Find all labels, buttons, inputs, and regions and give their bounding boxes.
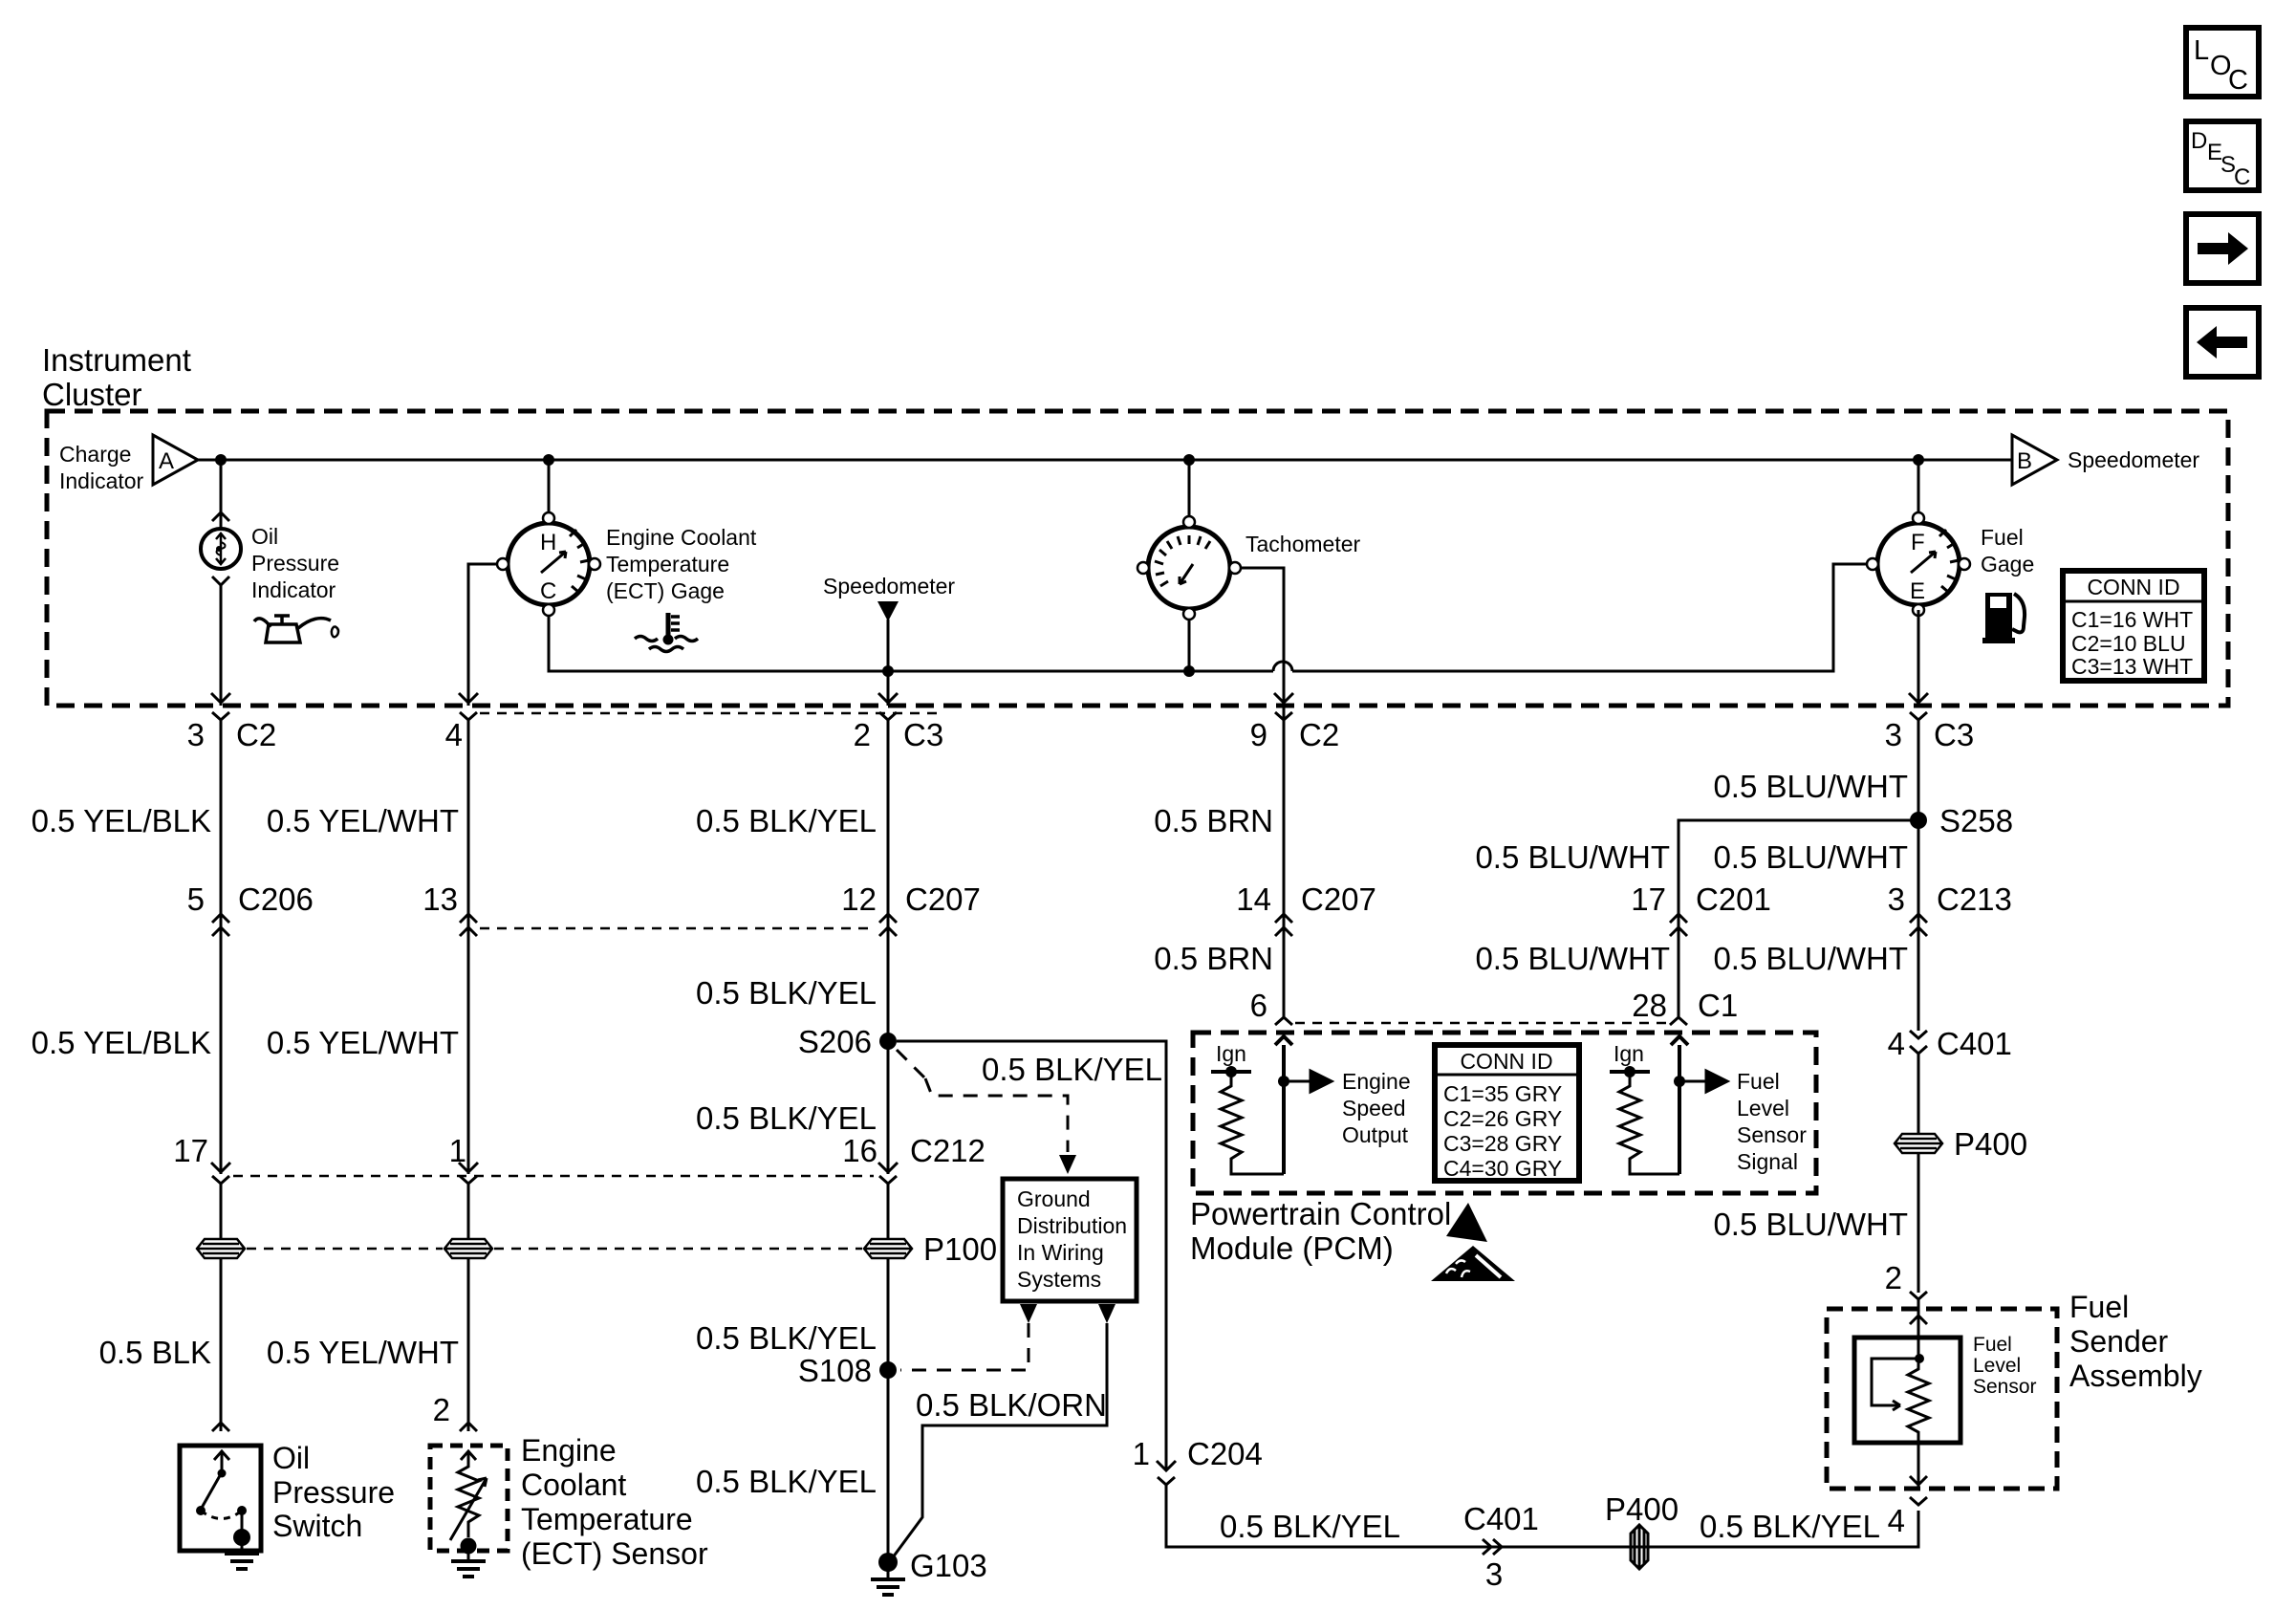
- svg-text:0.5 BLU/WHT: 0.5 BLU/WHT: [1475, 839, 1670, 875]
- svg-text:2: 2: [433, 1392, 450, 1427]
- svg-text:Indicator: Indicator: [59, 468, 144, 493]
- ground at ECT sensor: [451, 1538, 486, 1577]
- svg-text:17: 17: [173, 1133, 208, 1168]
- node: bus junction at oil indicator: [215, 454, 227, 466]
- node: bus junction at tachometer: [1183, 454, 1195, 466]
- P100 pass-through (ECT wire): [444, 1239, 492, 1258]
- arrow into cluster border (ECT): [459, 693, 478, 703]
- svg-text:Speed: Speed: [1342, 1096, 1406, 1120]
- svg-text:Fuel: Fuel: [2069, 1290, 2129, 1324]
- Engine Coolant Temperature (ECT) Gage label: [606, 525, 757, 603]
- oil pressure indicator gauge circle: [201, 529, 241, 569]
- wire: P400 to fuel sender: [1917, 1153, 1920, 1293]
- svg-text:C3=28 GRY: C3=28 GRY: [1443, 1131, 1562, 1156]
- LOC button box: [2186, 28, 2259, 97]
- wire: pin3 down to S258: [1917, 729, 1920, 820]
- svg-text:0.5 BLK/YEL: 0.5 BLK/YEL: [696, 1464, 877, 1499]
- svg-text:Ign: Ign: [1614, 1041, 1644, 1066]
- svg-text:16: 16: [842, 1133, 877, 1168]
- svg-text:F: F: [1911, 530, 1925, 555]
- svg-text:Assembly: Assembly: [2069, 1359, 2202, 1393]
- svg-text:CONN ID: CONN ID: [2087, 575, 2179, 599]
- svg-text:C4=30 GRY: C4=30 GRY: [1443, 1156, 1562, 1181]
- svg-text:Output: Output: [1342, 1122, 1409, 1147]
- arrow into C212 (ECT wire): [459, 1163, 478, 1172]
- wire: main bus A to B: [198, 459, 2012, 462]
- splice S108: [879, 1361, 897, 1379]
- arrow into cluster border (tach): [1274, 693, 1293, 703]
- wire: S108 down to G103: [887, 1370, 890, 1558]
- Fuel Level Sensor Signal label: [1737, 1069, 1807, 1174]
- wire into fuel sender with arrow: [1910, 1299, 1927, 1338]
- chevron below oil indicator: [212, 577, 229, 585]
- svg-text:C3=13 WHT: C3=13 WHT: [2071, 654, 2193, 679]
- ECT gauge circle: [497, 512, 600, 616]
- svg-text:0.5 YEL/WHT: 0.5 YEL/WHT: [267, 803, 459, 838]
- arrow to Engine Speed Output: [1284, 1071, 1332, 1092]
- svg-text:S108: S108: [798, 1353, 872, 1388]
- wire: P100 to ECT sensor: [467, 1258, 470, 1431]
- PCM Ign pullup (fuel level): [1610, 1041, 1679, 1174]
- svg-text:C2=26 GRY: C2=26 GRY: [1443, 1106, 1562, 1131]
- svg-text:12: 12: [841, 881, 877, 917]
- connector C207 pin 14 symbol: [1275, 914, 1292, 936]
- svg-text:C3: C3: [903, 717, 943, 752]
- connector pin 4 (fuel sender bottom): [1910, 1497, 1927, 1505]
- svg-text:Level: Level: [1973, 1355, 2021, 1377]
- svg-text:Fuel: Fuel: [1737, 1069, 1780, 1094]
- connector pin 2 C3 symbol: [879, 712, 897, 736]
- connector pin 9 C2 symbol: [1275, 712, 1292, 720]
- svg-text:P400: P400: [1605, 1491, 1679, 1527]
- Ground Distribution box: [1003, 1179, 1137, 1301]
- svg-text:P100: P100: [923, 1231, 997, 1267]
- svg-text:C401: C401: [1463, 1501, 1539, 1536]
- svg-text:Cluster: Cluster: [42, 377, 142, 412]
- svg-text:Sensor: Sensor: [1737, 1122, 1807, 1147]
- svg-text:Pressure: Pressure: [272, 1475, 395, 1510]
- fuel pump icon: [1982, 593, 2025, 643]
- fuel sender assembly dashed box: [1827, 1309, 2057, 1489]
- Fuel Sender Assembly label: [2069, 1290, 2202, 1393]
- svg-text:2: 2: [1885, 1260, 1902, 1295]
- connector C213 pin 3 symbol: [1910, 914, 1927, 936]
- svg-text:0.5 BRN: 0.5 BRN: [1154, 803, 1273, 838]
- arrow into cluster border (oil): [211, 693, 230, 703]
- P100 face dashed line: [247, 1248, 443, 1251]
- svg-text:4: 4: [1888, 1503, 1905, 1538]
- connector C207 pin 13 symbol: [460, 914, 477, 936]
- svg-text:C: C: [2228, 65, 2248, 96]
- connector C207 pin 12 symbol: [879, 914, 897, 936]
- P100 pass-through (speedo wire): [864, 1239, 912, 1258]
- svg-text:Systems: Systems: [1017, 1267, 1101, 1292]
- wire: speedometer to lower bus and cluster edge: [887, 620, 890, 706]
- svg-text:Oil: Oil: [251, 524, 278, 549]
- arrow to Fuel Level Sensor Signal: [1679, 1071, 1727, 1092]
- svg-text:28: 28: [1632, 988, 1667, 1023]
- svg-text:0.5 BLU/WHT: 0.5 BLU/WHT: [1713, 769, 1908, 804]
- svg-text:4: 4: [445, 717, 463, 752]
- wire: bus to oil pressure indicator: [220, 460, 223, 529]
- wire: lower bus from ECT gauge bottom to fuel gage left: [549, 564, 1874, 671]
- PCM CONN ID table: [1435, 1045, 1579, 1181]
- wire hop over tach output wire: [1273, 662, 1292, 671]
- wire: S206 bus to C204 down to bottom run: [897, 1041, 1166, 1470]
- wire: C212 to P100 (ECT wire): [467, 1184, 470, 1239]
- fuel level sensor box: [1854, 1338, 1960, 1443]
- svg-text:3: 3: [1485, 1556, 1503, 1592]
- left arrow button box: [2186, 308, 2259, 377]
- connector C401 pin 4 symbol: [1910, 1031, 1927, 1054]
- wire: S206 down to C212 pin16: [887, 1041, 890, 1174]
- svg-text:D: D: [2191, 128, 2207, 154]
- wire: C213 down to C401: [1917, 931, 1920, 1031]
- tachometer gauge circle: [1137, 516, 1241, 620]
- svg-text:C2=10 BLU: C2=10 BLU: [2071, 631, 2186, 656]
- node: lower bus junction at tachometer bottom: [1183, 665, 1195, 677]
- svg-text:Switch: Switch: [272, 1509, 362, 1543]
- svg-text:H: H: [540, 530, 556, 555]
- dashed branch S206 to ground distribution: [897, 1050, 1068, 1152]
- svg-text:0.5 BLU/WHT: 0.5 BLU/WHT: [1713, 1207, 1908, 1242]
- svg-text:Sensor: Sensor: [1973, 1376, 2037, 1398]
- wire: fuel gage bottom to cluster edge: [1917, 610, 1920, 706]
- svg-text:C212: C212: [910, 1133, 986, 1168]
- DESC button box: [2186, 121, 2259, 190]
- svg-text:0.5 BLK/ORN: 0.5 BLK/ORN: [916, 1387, 1107, 1423]
- svg-text:Speedometer: Speedometer: [2068, 447, 2199, 472]
- wire: tachometer bottom to lower bus: [1188, 610, 1191, 671]
- connector C212 pin 1 symbol: [460, 1176, 477, 1184]
- svg-text:C3: C3: [1934, 717, 1974, 752]
- Engine Coolant Temperature (ECT) Sensor label: [521, 1433, 708, 1571]
- node: bus junction at ECT gauge: [543, 454, 554, 466]
- wire: P100 to oil pressure switch: [220, 1258, 223, 1431]
- svg-text:C207: C207: [1301, 881, 1376, 917]
- dashed wire GD box to S108: [900, 1323, 1029, 1370]
- svg-text:Coolant: Coolant: [521, 1468, 626, 1502]
- wire: GD box right leg to G103: [893, 1323, 1107, 1557]
- Instrument Cluster label: [42, 342, 191, 412]
- chevron at ECT sensor input: [460, 1423, 477, 1431]
- ECT sensor dashed box: [430, 1446, 508, 1551]
- svg-text:0.5 BLU/WHT: 0.5 BLU/WHT: [1475, 941, 1670, 976]
- svg-text:0.5 BRN: 0.5 BRN: [1154, 941, 1273, 976]
- ECT sensor resistor: [450, 1451, 487, 1540]
- svg-text:0.5 BLK/YEL: 0.5 BLK/YEL: [1220, 1509, 1400, 1544]
- svg-text:Tachometer: Tachometer: [1245, 532, 1361, 556]
- wire: C212 to P100 (speedo wire): [887, 1184, 890, 1239]
- svg-text:Charge: Charge: [59, 442, 131, 467]
- svg-text:0.5 BLU/WHT: 0.5 BLU/WHT: [1713, 941, 1908, 976]
- Instrument Cluster dashed box: [47, 411, 2228, 706]
- svg-text:L: L: [2194, 35, 2209, 66]
- node: engine speed output branch: [1278, 1076, 1289, 1087]
- wire: pin4 down to C207 pin13: [467, 729, 470, 937]
- svg-text:Fuel: Fuel: [1981, 525, 2024, 550]
- P100 pass-through (oil wire): [197, 1239, 245, 1258]
- svg-text:Powertrain Control: Powertrain Control: [1190, 1196, 1451, 1231]
- right arrow button box: [2186, 214, 2259, 283]
- svg-text:6: 6: [1250, 988, 1267, 1023]
- PCM dashed box: [1193, 1033, 1816, 1193]
- svg-text:C: C: [2234, 164, 2250, 190]
- svg-text:Ground: Ground: [1017, 1186, 1091, 1211]
- ground G103: [871, 1548, 987, 1595]
- svg-text:C2: C2: [236, 717, 276, 752]
- wire: bus to tachometer top: [1188, 460, 1191, 522]
- svg-text:C1=35 GRY: C1=35 GRY: [1443, 1081, 1562, 1106]
- oil pressure switch contacts: [196, 1451, 247, 1534]
- svg-text:(ECT) Gage: (ECT) Gage: [606, 578, 725, 603]
- svg-text:Speedometer: Speedometer: [823, 574, 955, 598]
- svg-text:B: B: [2017, 448, 2032, 474]
- ground at oil pressure switch: [225, 1529, 259, 1569]
- wire: C201 down to PCM pin 28: [1678, 931, 1680, 1017]
- svg-text:0.5 BLK/YEL: 0.5 BLK/YEL: [1700, 1509, 1880, 1544]
- svg-text:3: 3: [187, 717, 205, 752]
- svg-text:Temperature: Temperature: [606, 552, 729, 577]
- wire: C206 down to C212: [220, 931, 223, 1174]
- svg-text:Indicator: Indicator: [251, 577, 336, 602]
- wire: pin3 down to C206: [220, 729, 223, 937]
- connector PCM pin 28 symbol: [1670, 1017, 1687, 1025]
- svg-text:3: 3: [1885, 717, 1902, 752]
- svg-text:1: 1: [1133, 1436, 1150, 1471]
- connector C204 pin 1 symbol: [1157, 1461, 1176, 1485]
- connector face dashed line C1 pins 6-28: [1295, 1022, 1671, 1025]
- svg-text:Module (PCM): Module (PCM): [1190, 1230, 1394, 1266]
- svg-text:C201: C201: [1696, 881, 1771, 917]
- svg-text:(ECT) Sensor: (ECT) Sensor: [521, 1536, 708, 1571]
- Fuel Level Sensor label: [1973, 1334, 2037, 1398]
- svg-text:C1: C1: [1698, 988, 1738, 1023]
- connector face dashed line pins 4-2: [480, 712, 937, 715]
- speedometer source arrow: [877, 601, 899, 621]
- svg-text:Engine: Engine: [521, 1433, 617, 1468]
- Engine Speed Output label: [1342, 1069, 1411, 1147]
- arrow into ground distribution box top: [1059, 1155, 1076, 1174]
- svg-text:Ign: Ign: [1216, 1041, 1246, 1066]
- svg-text:S206: S206: [798, 1024, 872, 1059]
- Fuel Gage label: [1981, 525, 2034, 577]
- svg-text:C: C: [540, 578, 556, 604]
- svg-text:A: A: [159, 448, 174, 474]
- connector C212 pin 16 symbol: [879, 1176, 897, 1184]
- Powertrain Control Module (PCM) label: [1190, 1196, 1451, 1266]
- svg-text:9: 9: [1250, 717, 1267, 752]
- svg-text:C401: C401: [1937, 1026, 2012, 1061]
- svg-text:17: 17: [1631, 881, 1666, 917]
- connector face dashed line pins 13-12: [480, 927, 876, 930]
- arrow out of GD box (right leg): [1098, 1304, 1116, 1323]
- arrow chevron above oil indicator: [212, 512, 229, 521]
- svg-text:Level: Level: [1737, 1096, 1789, 1120]
- svg-text:1: 1: [449, 1133, 466, 1168]
- connector C212 pin 17 symbol: [212, 1176, 229, 1184]
- svg-text:Engine Coolant: Engine Coolant: [606, 525, 757, 550]
- wire: bus to ECT gauge top: [548, 460, 551, 513]
- wire: pin13 down to C212 pin1: [467, 931, 470, 1174]
- wire: ECT gauge left terminal elbow down to cluster edge: [468, 564, 498, 706]
- svg-text:0.5 BLK/YEL: 0.5 BLK/YEL: [696, 803, 877, 838]
- wire: C204 down and right to fuel sender pin 4: [1166, 1485, 1918, 1547]
- svg-text:4: 4: [1888, 1026, 1905, 1061]
- svg-text:C1=16 WHT: C1=16 WHT: [2071, 607, 2193, 632]
- arrow into C212 (oil wire): [211, 1163, 230, 1172]
- connector face dashed line C212: [233, 1175, 874, 1178]
- svg-text:Instrument: Instrument: [42, 342, 191, 378]
- connection A (Charge Indicator) triangle: [59, 435, 198, 493]
- svg-text:Temperature: Temperature: [521, 1502, 693, 1536]
- wire: C212 to P100 (oil wire): [220, 1184, 223, 1239]
- oil pressure switch box: [180, 1446, 261, 1551]
- P400 inline pass-through (bottom): [1631, 1525, 1648, 1569]
- fuel level sensor potentiometer: [1872, 1338, 1929, 1443]
- svg-text:0.5 BLK: 0.5 BLK: [99, 1335, 211, 1370]
- connector C206 pin 5 symbol: [212, 914, 229, 936]
- wire: oil indicator down to cluster edge: [220, 585, 223, 706]
- wire: P100 to S108: [887, 1258, 890, 1370]
- svg-text:0.5 BLK/YEL: 0.5 BLK/YEL: [696, 1320, 877, 1356]
- svg-text:0.5 YEL/WHT: 0.5 YEL/WHT: [267, 1025, 459, 1060]
- node: lower bus junction at speedometer wire: [882, 665, 894, 677]
- wire: pin12 down to S206: [887, 931, 890, 1041]
- wire: pin2 down to C207 pin12: [887, 729, 890, 937]
- cluster CONN ID table: [2063, 571, 2204, 681]
- svg-text:Gage: Gage: [1981, 552, 2034, 577]
- PCM pin 28 internal arrow: [1671, 1036, 1688, 1174]
- svg-text:C204: C204: [1187, 1436, 1263, 1471]
- svg-text:5: 5: [187, 881, 205, 917]
- arrow into C212 (speedo wire): [878, 1163, 898, 1172]
- wire: S258 branch to C201: [1679, 820, 1918, 937]
- connection B (Speedometer) triangle: [2012, 435, 2199, 485]
- node: bus junction at fuel gage: [1913, 454, 1924, 466]
- svg-text:Signal: Signal: [1737, 1149, 1798, 1174]
- svg-text:13: 13: [422, 881, 458, 917]
- svg-text:CONN ID: CONN ID: [1460, 1049, 1552, 1074]
- svg-text:In Wiring: In Wiring: [1017, 1240, 1104, 1265]
- Oil Pressure Indicator label: [251, 524, 339, 602]
- ESD sensitivity symbol: [1431, 1203, 1515, 1281]
- wire: tach right terminal elbow down to PCM pin 6: [1240, 568, 1284, 1017]
- P400 pass-through (fuel wire): [1895, 1134, 1942, 1153]
- connector pin 4 symbol: [460, 712, 477, 736]
- svg-text:3: 3: [1888, 881, 1905, 917]
- svg-text:2: 2: [854, 717, 871, 752]
- connector C201 pin 17 symbol: [1670, 914, 1687, 936]
- svg-text:P400: P400: [1954, 1126, 2027, 1162]
- svg-text:Distribution: Distribution: [1017, 1213, 1127, 1238]
- svg-text:C2: C2: [1299, 717, 1339, 752]
- ECT thermometer icon: [635, 613, 698, 652]
- svg-text:S258: S258: [1939, 803, 2013, 838]
- svg-text:Fuel: Fuel: [1973, 1334, 2012, 1356]
- svg-text:0.5 YEL/BLK: 0.5 YEL/BLK: [32, 1025, 211, 1060]
- PCM Ign pullup (engine speed): [1211, 1041, 1592, 1174]
- wire: S258 down to C213: [1917, 820, 1920, 937]
- PCM pin 6 internal arrow: [1275, 1036, 1292, 1174]
- svg-text:14: 14: [1236, 881, 1271, 917]
- svg-text:C207: C207: [905, 881, 981, 917]
- Oil Pressure Switch label: [272, 1441, 395, 1543]
- connector pin 3 C2 symbol: [212, 712, 229, 736]
- svg-text:C206: C206: [238, 881, 314, 917]
- svg-text:G103: G103: [910, 1548, 987, 1583]
- splice S258: [1910, 812, 1927, 829]
- svg-text:0.5 BLU/WHT: 0.5 BLU/WHT: [1713, 839, 1908, 875]
- svg-text:C213: C213: [1937, 881, 2012, 917]
- svg-text:E: E: [1910, 578, 1925, 604]
- connector pin 3 C3 symbol: [1910, 712, 1927, 736]
- fuel gage circle: [1867, 512, 1970, 616]
- svg-text:0.5 YEL/WHT: 0.5 YEL/WHT: [267, 1335, 459, 1370]
- splice S206: [879, 1033, 897, 1050]
- oil can icon: [254, 616, 338, 642]
- svg-text:0.5 BLK/YEL: 0.5 BLK/YEL: [696, 975, 877, 1011]
- connector C401 pin 3 inline symbol: [1483, 1539, 1502, 1555]
- wire: bus to fuel gage top: [1917, 460, 1920, 518]
- svg-text:0.5 YEL/BLK: 0.5 YEL/BLK: [32, 803, 211, 838]
- node: fuel level sensor signal branch: [1674, 1076, 1685, 1087]
- svg-text:Oil: Oil: [272, 1441, 310, 1475]
- connector PCM pin 6 symbol: [1275, 1017, 1292, 1025]
- arrow into cluster border (speedo): [878, 693, 898, 703]
- svg-text:Sender: Sender: [2069, 1324, 2169, 1359]
- svg-text:Engine: Engine: [1342, 1069, 1411, 1094]
- arrow into cluster border (fuel): [1909, 693, 1928, 703]
- wire: C401 to P400: [1917, 1054, 1920, 1134]
- wire: sensor box to fuel sender pin 4: [1910, 1443, 1927, 1489]
- svg-text:0.5 BLK/YEL: 0.5 BLK/YEL: [982, 1052, 1162, 1087]
- arrow out of GD box (left leg): [1020, 1304, 1037, 1323]
- chevron at oil pressure switch input: [212, 1423, 229, 1431]
- svg-text:Pressure: Pressure: [251, 551, 339, 576]
- chevron at fuel sender pin 2: [1910, 1292, 1927, 1299]
- svg-text:0.5 BLK/YEL: 0.5 BLK/YEL: [696, 1100, 877, 1136]
